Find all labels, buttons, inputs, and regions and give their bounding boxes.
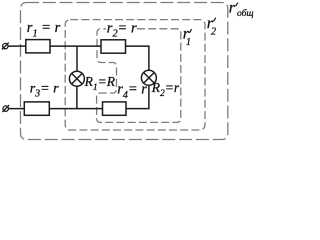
svg-text:r2= r: r2= r [107, 20, 137, 39]
dashed box r'2 [65, 20, 205, 130]
resistor r4 [103, 102, 127, 115]
gap in r'1 top edge under label r2 [106, 25, 136, 34]
svg-text:r3= r: r3= r [30, 81, 59, 99]
label r'1 [183, 26, 192, 49]
wire node A down to lamp R1 [76, 46, 78, 71]
wire r3 to r4 (node B under lamp R1) [49, 108, 102, 110]
lamp R2 [141, 70, 156, 85]
label r'2 [207, 15, 216, 38]
svg-text:R1=R: R1=R [84, 74, 116, 93]
terminal (top left input) [2, 43, 9, 50]
dashed box r'1 (with notch avoiding R1=R label) [97, 29, 181, 123]
lamp R1 [69, 71, 84, 86]
wire terminal to r3 [8, 108, 24, 110]
svg-text:r1 = r: r1 = r [27, 20, 61, 39]
svg-text:r: r [229, 0, 236, 17]
wire r2 right then down to lamp R2 [126, 46, 149, 70]
label r'общ [229, 0, 254, 19]
dashed box r'общ (outer equivalent resistance outline) [21, 3, 228, 140]
svg-text:R2=r: R2=r [151, 80, 180, 99]
wire lamp R2 down then left to r4 [126, 85, 149, 108]
wire terminal to r1 [8, 45, 26, 47]
wire r1 to r2 [50, 45, 101, 47]
resistor r3 [24, 102, 49, 115]
terminal (bottom left input) [2, 105, 9, 112]
resistor r2 [101, 40, 126, 53]
svg-text:общ: общ [237, 8, 254, 19]
wire lamp R1 to bottom rail [76, 86, 78, 109]
svg-text:r4= r: r4= r [117, 82, 147, 101]
svg-text:2: 2 [211, 27, 216, 38]
resistor r1 [26, 40, 50, 53]
svg-text:1: 1 [186, 37, 191, 48]
